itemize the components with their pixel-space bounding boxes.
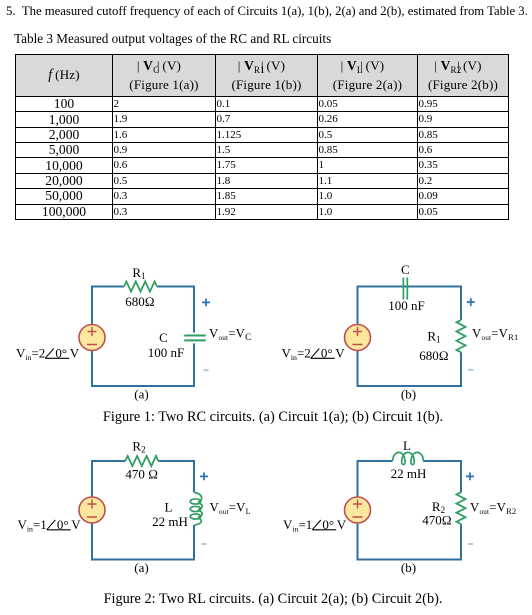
table caption bbox=[14, 31, 331, 47]
wire: circuit 1(b) bottom wire and left wire lower bbox=[358, 351, 463, 387]
voltage source V2 circuit 2(b) Vin=1∠0°V bbox=[345, 497, 371, 523]
wire: circuit 1(a) top-left corner and left wire upper bbox=[92, 287, 124, 325]
svg-text:(b): (b) bbox=[401, 386, 416, 401]
polarity marks + and - circuit 2(b) output bbox=[466, 473, 474, 545]
resistor R2 circuit 2(b) 470Ω bbox=[422, 492, 465, 527]
svg-text:470 Ω: 470 Ω bbox=[125, 466, 158, 481]
svg-text:V: V bbox=[70, 346, 80, 361]
svg-text:22 mH: 22 mH bbox=[391, 466, 427, 481]
svg-text:Vout=VR1: Vout=VR1 bbox=[472, 327, 518, 343]
wire: circuit 1(a) right wire lower bbox=[193, 343, 195, 386]
label Vin=2∠0° V circuit 1(b) bbox=[282, 346, 346, 363]
svg-text:R1: R1 bbox=[132, 265, 145, 281]
label Vin=2∠0° V circuit 1(a) bbox=[16, 346, 80, 363]
svg-text:R2: R2 bbox=[132, 439, 145, 455]
svg-text:0°: 0° bbox=[322, 517, 334, 532]
wire: circuit 1(b) right wire upper bbox=[460, 286, 462, 321]
wire: circuit 2(b) right wire lower bbox=[460, 524, 462, 560]
wire: circuit 2(a) bottom wire and left wire lower bbox=[92, 523, 195, 560]
svg-text:100 nF: 100 nF bbox=[148, 345, 184, 360]
svg-text:0°: 0° bbox=[57, 517, 69, 532]
label Vin=1∠0° V circuit 2(a) bbox=[18, 517, 82, 534]
polarity marks + and - circuit 1(a) output bbox=[202, 299, 210, 371]
label Vin=1∠0° V circuit 2(b) bbox=[283, 517, 347, 534]
resistor R2 circuit 2(a) 470 Ω bbox=[125, 439, 158, 482]
svg-text:(b): (b) bbox=[401, 560, 416, 575]
svg-text:100 nF: 100 nF bbox=[388, 298, 424, 313]
polarity marks + and - circuit 1(b) output bbox=[467, 298, 475, 370]
resistor R1 circuit 1(a) bbox=[124, 265, 157, 309]
svg-text:V: V bbox=[337, 517, 347, 532]
inductor L circuit 2(b) 22 mH bbox=[391, 438, 427, 481]
svg-text:Vin=1: Vin=1 bbox=[18, 517, 47, 534]
svg-text:L: L bbox=[165, 500, 173, 515]
polarity marks + and - circuit 2(a) output bbox=[200, 473, 208, 545]
wire: circuit 2(a) top wire right segment and right wire upper bbox=[158, 461, 194, 493]
wire: circuit 2(a) top-left corner and left wire upper bbox=[92, 461, 125, 497]
svg-text:Vin=1: Vin=1 bbox=[283, 517, 312, 534]
wire: circuit 2(a) right wire lower bbox=[193, 525, 195, 560]
resistor R1 circuit 1(b) 680Ω bbox=[419, 320, 465, 363]
label Vout=VR2 circuit 2(b) bbox=[470, 501, 516, 517]
svg-text:V: V bbox=[335, 346, 345, 361]
label Vout=VC circuit 1(a) bbox=[209, 327, 252, 344]
voltage source V1 circuit 1(b) Vin=2∠0°V bbox=[345, 325, 371, 351]
wire: circuit 1(a) bottom wire and left wire lower bbox=[92, 351, 195, 387]
table 3 bbox=[15, 54, 509, 220]
svg-text:Vin=2: Vin=2 bbox=[16, 346, 45, 363]
svg-text:R1: R1 bbox=[427, 329, 440, 345]
svg-text:(a): (a) bbox=[134, 386, 148, 401]
svg-text:V: V bbox=[71, 517, 81, 532]
wire: circuit 2(b) top wire right segment and right wire upper bbox=[424, 461, 461, 493]
voltage source V1 circuit 1(a) Vin=2∠0°V bbox=[79, 325, 105, 351]
svg-text:Vout=VL: Vout=VL bbox=[210, 501, 251, 517]
svg-text:(a): (a) bbox=[134, 560, 148, 575]
label Vout=VL circuit 2(a) bbox=[210, 501, 251, 517]
svg-text:0°: 0° bbox=[321, 346, 333, 361]
paragraph problem 5 bbox=[6, 4, 528, 19]
wire: circuit 1(b) right wire lower bbox=[460, 352, 462, 386]
figure 1 caption bbox=[0, 409, 532, 426]
wire: circuit 1(a) top wire right segment and right wire bbox=[157, 287, 194, 333]
svg-text:Vout=VC: Vout=VC bbox=[209, 327, 252, 344]
svg-text:470Ω: 470Ω bbox=[422, 513, 452, 528]
svg-text:L: L bbox=[403, 438, 411, 453]
capacitor C circuit 1(b) 100 nF bbox=[388, 262, 424, 313]
svg-text:680Ω: 680Ω bbox=[419, 348, 449, 363]
figure 2 caption bbox=[0, 591, 532, 608]
svg-text:680Ω: 680Ω bbox=[125, 294, 155, 309]
svg-text:Vout=VR2: Vout=VR2 bbox=[470, 501, 516, 517]
svg-text:Vin=2: Vin=2 bbox=[282, 346, 311, 363]
wire: circuit 2(b) bottom wire and left wire lower bbox=[358, 523, 463, 560]
capacitor C circuit 1(a) 100 nF bbox=[148, 330, 206, 360]
svg-text:C: C bbox=[159, 330, 168, 345]
label Vout=VR1 circuit 1(b) bbox=[472, 327, 518, 343]
wire: circuit 2(b) top wire left segment and left wire upper bbox=[358, 461, 393, 497]
wire: circuit 1(b) top wire and left wire upper bbox=[358, 287, 462, 325]
voltage source V2 circuit 2(a) Vin=1∠0°V bbox=[79, 497, 105, 523]
svg-text:C: C bbox=[401, 262, 410, 277]
svg-text:22 mH: 22 mH bbox=[152, 514, 188, 529]
inductor L circuit 2(a) 22 mH bbox=[152, 493, 202, 529]
svg-text:0°: 0° bbox=[55, 346, 67, 361]
